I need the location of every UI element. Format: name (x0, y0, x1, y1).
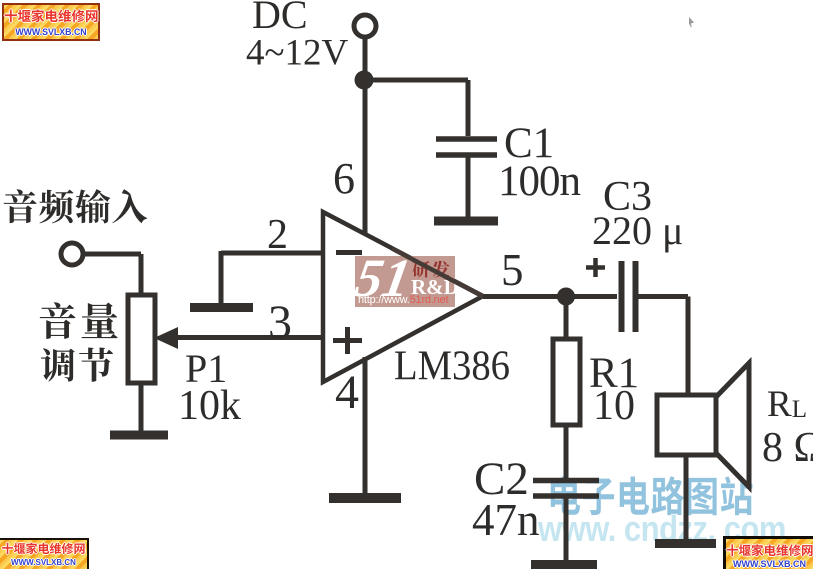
svg-text:3: 3 (268, 296, 292, 349)
inverting input minus sign (336, 250, 362, 255)
watermark cndzz CJK line (547, 464, 754, 524)
svg-text:音频输入: 音频输入 (2, 180, 148, 231)
wire R1 to C2 (564, 425, 569, 481)
wire pin 5 output (483, 294, 617, 299)
speaker RL box (657, 395, 716, 455)
wire pin 3 from potentiometer wiper (172, 335, 323, 340)
wire C2 to ground (564, 498, 569, 560)
watermark yanfa CJK (412, 256, 452, 282)
capacitor C3 plates (622, 261, 636, 332)
ground (C2) (531, 560, 597, 569)
wire DC terminal to V+ node (363, 38, 368, 80)
svg-text:5: 5 (501, 245, 524, 295)
ground (pin 2) (190, 303, 253, 312)
ground (C1) (434, 217, 498, 226)
wire input to potentiometer P1 (84, 254, 141, 296)
capacitor C1 (436, 139, 497, 155)
svg-text:DC: DC (252, 0, 308, 37)
svg-text:4: 4 (335, 366, 359, 419)
watermark box top-left (2, 3, 100, 41)
speck artifact (689, 17, 694, 27)
non-inverting input plus sign (333, 327, 362, 354)
node V+ junction dot (355, 71, 374, 90)
wire speaker to ground (684, 455, 689, 539)
watermark 51 italic (351, 247, 416, 309)
watermark box bottom-left (0, 538, 89, 569)
svg-text:10k: 10k (178, 383, 241, 429)
svg-text:2: 2 (267, 212, 288, 258)
ground (P1) (110, 431, 168, 440)
watermark 51rd url (358, 294, 448, 306)
wire pin 6 from V+ node to op-amp (363, 80, 368, 236)
watermark box bottom-right (723, 536, 813, 569)
ground (pin 4) (329, 493, 401, 503)
watermark 51 R&D box (355, 256, 455, 307)
svg-text:4~12V: 4~12V (246, 33, 349, 74)
wire P1 to ground (139, 383, 144, 431)
op-amp U1 LM386 triangle (323, 212, 483, 382)
potentiometer P1 body (128, 295, 155, 383)
svg-text:220 μ: 220 μ (592, 208, 683, 253)
svg-text:47n: 47n (472, 495, 540, 545)
svg-text:10: 10 (593, 383, 635, 429)
watermark R&D (411, 275, 459, 300)
svg-text:100n: 100n (498, 158, 581, 205)
wire pin 2 (221, 251, 323, 303)
wiper arrow of P1 (154, 327, 178, 349)
ground (speaker) (655, 539, 716, 548)
C3 polarity plus sign (586, 258, 605, 277)
wire output node to R1 (564, 297, 569, 340)
wire pin 4 to ground (363, 357, 368, 493)
svg-text:8 Ω: 8 Ω (762, 425, 813, 471)
input terminal (audio in) (61, 243, 83, 265)
svg-text:调节: 调节 (40, 339, 116, 390)
resistor R1 body (553, 339, 580, 425)
output node junction dot (557, 288, 575, 306)
wire C1 to ground (466, 157, 471, 217)
DC supply terminal (354, 15, 376, 37)
watermark cndzz url line (538, 508, 786, 550)
wire C3 to speaker (638, 297, 688, 396)
speaker RL cone (716, 363, 749, 487)
capacitor C2 plates (533, 481, 599, 497)
svg-text:LM386: LM386 (394, 344, 510, 390)
svg-text:6: 6 (333, 154, 355, 203)
svg-text:RL: RL (767, 384, 807, 425)
wire V+ node to C1 (364, 80, 468, 136)
